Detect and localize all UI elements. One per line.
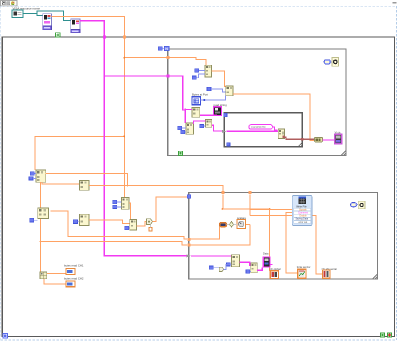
- wire orange C out: [51, 211, 187, 239]
- pill node string to byte: [315, 137, 323, 142]
- lower while loop frame: [189, 193, 378, 280]
- wire orange B out to lower structure: [89, 186, 223, 193]
- tunnel orange top 1: [222, 191, 225, 194]
- wire magenta inside lower: [191, 255, 232, 257]
- constant D to L1: [227, 263, 231, 266]
- wire orange E to H: [89, 220, 130, 224]
- cmp glyph node: [147, 219, 153, 225]
- constant D to F6: [200, 125, 204, 128]
- tunnel blue case top-left: [224, 113, 227, 116]
- wire orange inside top1: [223, 194, 269, 271]
- iconB indicator: [323, 270, 331, 278]
- node F6: [206, 120, 212, 128]
- wire orange Fm to H: [129, 203, 131, 219]
- node F1: index array: [205, 65, 212, 77]
- magenta stub to F3: [185, 109, 192, 111]
- constant D to C: [30, 218, 34, 222]
- blue tunnel outer bottom-left: [3, 334, 7, 338]
- wire magenta L2 to Data: [257, 268, 262, 271]
- wire orange EV to iconB: [311, 215, 323, 273]
- VISA property node U2: [71, 19, 80, 33]
- wire magenta to VISA close: [323, 139, 335, 141]
- svg-text:Data: Data: [263, 252, 269, 256]
- wire orange knob out: [246, 224, 251, 226]
- svg-text:Ch global: Ch global: [270, 267, 281, 271]
- green constant bottom-right: [380, 333, 384, 337]
- wire teal VISA: [23, 11, 71, 20]
- constants D to F5: [178, 126, 182, 129]
- tunnel arrow magenta lower: [186, 254, 190, 257]
- wire orange A to B: [42, 182, 80, 184]
- wire orange A down: [40, 182, 42, 272]
- svg-text:bytes read CH1: bytes read CH1: [64, 264, 84, 268]
- constant D to H: [125, 226, 129, 229]
- N terminal: [164, 46, 169, 51]
- wire orange left2 up: [191, 225, 251, 245]
- node F2: [226, 86, 233, 96]
- wire orange glyph to tunnel: [153, 197, 188, 222]
- node F3: [192, 107, 200, 117]
- stop button bottom-right: [388, 333, 392, 337]
- constants D to Fm: [113, 200, 117, 203]
- wire orange long lower from A: [41, 242, 187, 245]
- tunnel orange left 2: [187, 243, 190, 246]
- indicator2: [66, 281, 75, 287]
- node L1 scan: [232, 255, 240, 267]
- tunnel orange left 1: [187, 238, 190, 241]
- tunnel orange outer: [123, 36, 126, 39]
- tunnel blue case bottom: [227, 143, 230, 146]
- VISA configure node U1: [43, 14, 52, 30]
- wire magenta L1 to L2: [239, 262, 250, 265]
- knob node: [234, 220, 246, 229]
- tunnel blue lower-left top: [187, 195, 191, 199]
- wait ms node (top right of for loop): [324, 58, 339, 67]
- tunnel arrow magenta into case: [222, 130, 226, 133]
- constant D to E: [73, 220, 77, 224]
- constants D to A: [30, 172, 34, 175]
- wire error maroon: [285, 137, 315, 139]
- mini orange constant under glyph: [149, 227, 152, 231]
- node Fm (mid): [122, 198, 130, 210]
- wire orange main from U1: [35, 16, 206, 197]
- wire orange F2 out long: [233, 94, 315, 141]
- svg-text:0123456789: 0123456789: [251, 125, 266, 129]
- node H: [130, 220, 137, 230]
- svg-text:N: N: [165, 47, 168, 51]
- indicator1: [66, 269, 75, 275]
- node E: [80, 214, 90, 225]
- svg-text:Write File: Write File: [296, 205, 307, 208]
- green ok constant: [56, 33, 60, 37]
- blue glyph lower: [219, 267, 224, 271]
- toolbar box top-left: [1, 1, 18, 6]
- Express VI Write Measurement: [292, 196, 312, 226]
- const 500 orange: [220, 223, 227, 227]
- node B: [80, 181, 90, 191]
- node L2: [251, 263, 257, 273]
- tunnel magenta outer: [103, 36, 106, 39]
- VISA resource name control: [12, 10, 23, 18]
- svg-text:error out: error out: [299, 221, 308, 224]
- svg-text:Comment: Comment: [298, 212, 308, 215]
- svg-text:bytes read CH2: bytes read CH2: [64, 276, 84, 280]
- wire orange left1 to const: [191, 227, 220, 239]
- convert glyph: [227, 222, 234, 228]
- node A: [36, 170, 46, 182]
- unbundle node: [40, 272, 47, 279]
- corner glyph top-right: [393, 2, 397, 3]
- wire magenta main from U2: [80, 21, 187, 256]
- wire orange H to cmp glyph: [137, 222, 147, 226]
- svg-text:Saving Data: Saving Data: [296, 218, 309, 221]
- wire magenta inside case: [226, 130, 278, 132]
- node F5: [186, 123, 194, 134]
- blue D lower: [209, 266, 213, 269]
- tunnel magenta for-loop: [166, 75, 169, 78]
- concat node: [278, 129, 284, 139]
- green TF constant: [178, 151, 182, 155]
- wire orange A out right: [46, 173, 128, 185]
- icon0 indicator: [270, 271, 278, 279]
- wire magenta F6 to case: [212, 125, 222, 131]
- wire blue to N: [162, 48, 164, 50]
- for loop frame: [168, 49, 346, 156]
- tunnel orange for-loop: [166, 56, 169, 59]
- constant D to F2: [207, 87, 211, 90]
- wait ms node lower: [351, 201, 366, 209]
- constant to N: [158, 47, 162, 51]
- wire orange inside top2: [249, 194, 251, 215]
- constant D to L2: [246, 270, 250, 273]
- constants D to F1: [195, 69, 199, 72]
- wire magenta F5 to F6: [194, 121, 206, 124]
- Data string indicator: [263, 257, 270, 267]
- wire orange EV to iconA: [286, 212, 298, 273]
- VISA close node: [335, 134, 342, 144]
- wire magenta F3 to F4: [200, 114, 217, 116]
- svg-text:forta senzor: forta senzor: [297, 265, 311, 269]
- node C: [38, 208, 49, 219]
- property node bytes at port: [192, 97, 200, 105]
- string constant pink: [249, 125, 278, 130]
- iconA indicator: [298, 269, 306, 278]
- wire blue property to F2: [201, 96, 226, 100]
- svg-text:Bytes at Port: Bytes at Port: [192, 92, 208, 96]
- tunnel orange top 2: [249, 191, 252, 194]
- wires orange unbundle to indicators: [47, 273, 66, 275]
- wire orange F1 to F2: [212, 71, 226, 87]
- node F4 string terminal: [214, 107, 222, 116]
